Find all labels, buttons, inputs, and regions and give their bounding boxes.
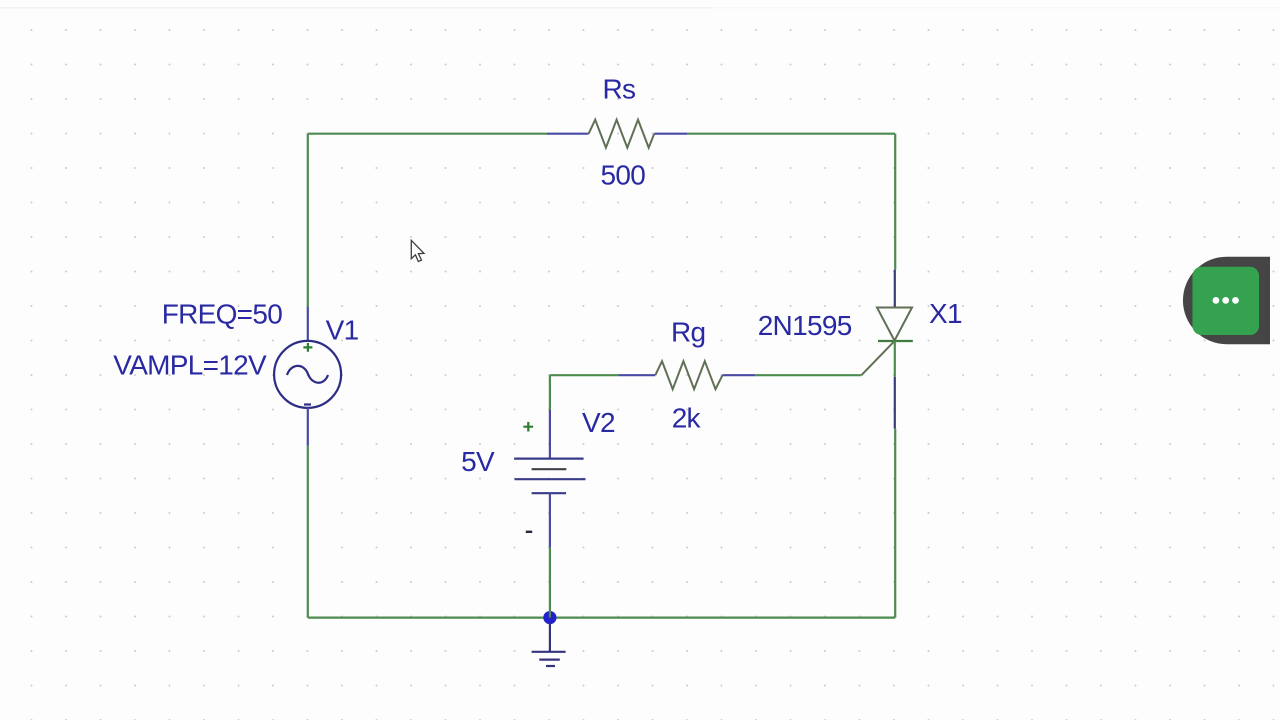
- wire battery vertical green (bottom): [549, 547, 551, 618]
- svg-text:2k: 2k: [672, 402, 702, 433]
- wire top right green run: [687, 133, 895, 135]
- thyristor X1 triangle: [877, 308, 912, 341]
- svg-text:V2: V2: [582, 407, 615, 438]
- battery V2 plate 2 (short): [532, 468, 567, 470]
- more-options tab (dark): [1183, 257, 1270, 345]
- wire: Rs left lead (blue): [547, 133, 589, 135]
- wire top (y=133.7): left green run: [308, 133, 547, 135]
- svg-text:5V: 5V: [461, 446, 495, 477]
- wire: X1 anode pin (navy): [894, 270, 896, 308]
- wire left vertical green (top): [307, 134, 309, 307]
- wire: V1 bottom pin (blue): [307, 408, 309, 446]
- wire right vertical green (top): [894, 134, 896, 270]
- svg-text:FREQ=50: FREQ=50: [162, 299, 283, 330]
- svg-text:VAMPL=12V: VAMPL=12V: [113, 350, 267, 381]
- battery V2 plate 3 (long): [515, 478, 586, 480]
- V1 minus mark: [304, 403, 311, 405]
- ground bar 2: [539, 658, 560, 660]
- svg-text:X1: X1: [929, 298, 962, 329]
- source V1 circle: [274, 341, 341, 408]
- wire battery vertical green (top): [549, 375, 551, 410]
- ground stem: [549, 623, 551, 652]
- svg-text:500: 500: [601, 159, 646, 190]
- V1 plus mark: [303, 343, 312, 352]
- battery V2 plate 4 (short): [532, 492, 567, 494]
- ground bar 3: [546, 665, 555, 667]
- wire: Rg right lead (blue): [723, 374, 756, 376]
- svg-text:Rg: Rg: [671, 317, 705, 348]
- wire gate horizontal green (left run): [550, 374, 619, 376]
- V2 minus mark: [526, 531, 532, 533]
- svg-text:2N1595: 2N1595: [758, 310, 852, 341]
- faint top edge line: [0, 7, 712, 9]
- V1 sine wave: [287, 366, 328, 383]
- wire gate horizontal green (right run): [755, 374, 861, 376]
- wire: Rs right lead (blue): [654, 133, 687, 135]
- more-options green button: [1193, 267, 1260, 335]
- wire: X1 cathode pin (navy): [894, 377, 896, 429]
- wire: V2 plus pin (blue): [549, 410, 551, 459]
- resistor Rg: [655, 361, 722, 389]
- wire bottom green: [308, 616, 895, 618]
- junction dot: [543, 611, 556, 624]
- ground bar 1: [532, 651, 566, 653]
- wire left vertical green (bottom): [307, 446, 309, 618]
- resistor Rs: [589, 120, 655, 148]
- svg-text:V1: V1: [326, 314, 359, 345]
- battery V2 plate 1 (long): [514, 458, 584, 460]
- svg-text:Rs: Rs: [603, 73, 636, 104]
- V2 plus mark: [523, 422, 533, 432]
- more-options dots: [1213, 297, 1220, 304]
- X1 gate lead diagonal: [861, 341, 894, 375]
- wire below cathode green stub: [894, 341, 896, 377]
- mouse cursor: [411, 240, 424, 261]
- wire: V1 top pin (blue): [307, 307, 309, 342]
- wire right vertical green (bottom): [894, 429, 896, 618]
- X1 cathode bar: [878, 340, 913, 342]
- wire: V2 minus pin (blue): [549, 493, 551, 547]
- wire: Rg left lead (blue): [619, 374, 656, 376]
